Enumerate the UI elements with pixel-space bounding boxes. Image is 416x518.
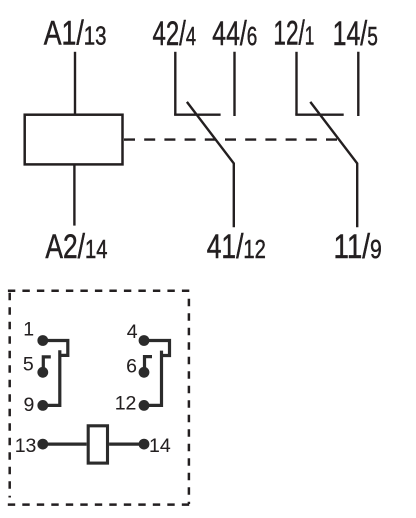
- contact bar 12/1: [295, 113, 343, 115]
- pin13 dot: [37, 439, 48, 450]
- wire terminal 12/1: [295, 52, 297, 115]
- pin6 dot: [139, 367, 150, 378]
- pin12 lever wire: [144, 351, 162, 406]
- svg-text:12: 12: [115, 393, 137, 415]
- svg-text:13: 13: [15, 435, 37, 457]
- svg-text:6: 6: [126, 356, 137, 378]
- box bottom edge: [8, 503, 190, 506]
- dashed pinout box: [8, 291, 191, 505]
- wire terminal 14/5: [357, 52, 359, 116]
- mechanical link dashed: [124, 138, 338, 140]
- svg-text:12/1: 12/1: [273, 15, 314, 53]
- pin1 hook wire: [43, 341, 68, 356]
- pin1 dot: [37, 335, 48, 346]
- box top edge: [8, 290, 191, 293]
- svg-text:4: 4: [127, 321, 138, 343]
- pin4 dot: [139, 335, 150, 346]
- svg-text:44/6: 44/6: [212, 15, 257, 53]
- svg-text:14: 14: [149, 435, 171, 457]
- svg-text:41/12: 41/12: [207, 228, 266, 266]
- svg-text:14/5: 14/5: [333, 15, 378, 53]
- wire terminal 42/4: [174, 52, 176, 115]
- box left edge: [8, 293, 11, 498]
- svg-text:1: 1: [23, 319, 34, 341]
- pin5 stub wire: [43, 357, 51, 370]
- wire pin13 to coil: [43, 443, 87, 446]
- contact bar 42/4: [174, 113, 221, 115]
- wire terminal 44/6: [233, 52, 235, 116]
- svg-text:5: 5: [23, 353, 34, 375]
- pin12 dot: [139, 400, 150, 411]
- pin9 lever wire: [43, 350, 60, 405]
- svg-text:42/4: 42/4: [153, 15, 197, 53]
- pin14 dot: [139, 439, 150, 450]
- pin5 dot: [37, 367, 48, 378]
- svg-text:11/9: 11/9: [334, 227, 382, 265]
- box right edge: [188, 299, 191, 504]
- coil rect bottom: [88, 426, 107, 463]
- pin9 dot: [37, 400, 48, 411]
- pin4 hook wire: [144, 341, 170, 356]
- wire A1 to coil: [74, 52, 76, 115]
- coil K1: [25, 115, 123, 165]
- svg-text:A2/14: A2/14: [45, 228, 107, 266]
- wire coil to pin14: [109, 443, 144, 446]
- svg-text:A1/13: A1/13: [44, 15, 107, 53]
- contact lever 11/9: [310, 102, 357, 227]
- wire coil to A2: [73, 164, 75, 225]
- contact lever 41/12: [187, 102, 234, 227]
- svg-text:9: 9: [24, 394, 35, 416]
- pin6 stub wire: [145, 357, 153, 370]
